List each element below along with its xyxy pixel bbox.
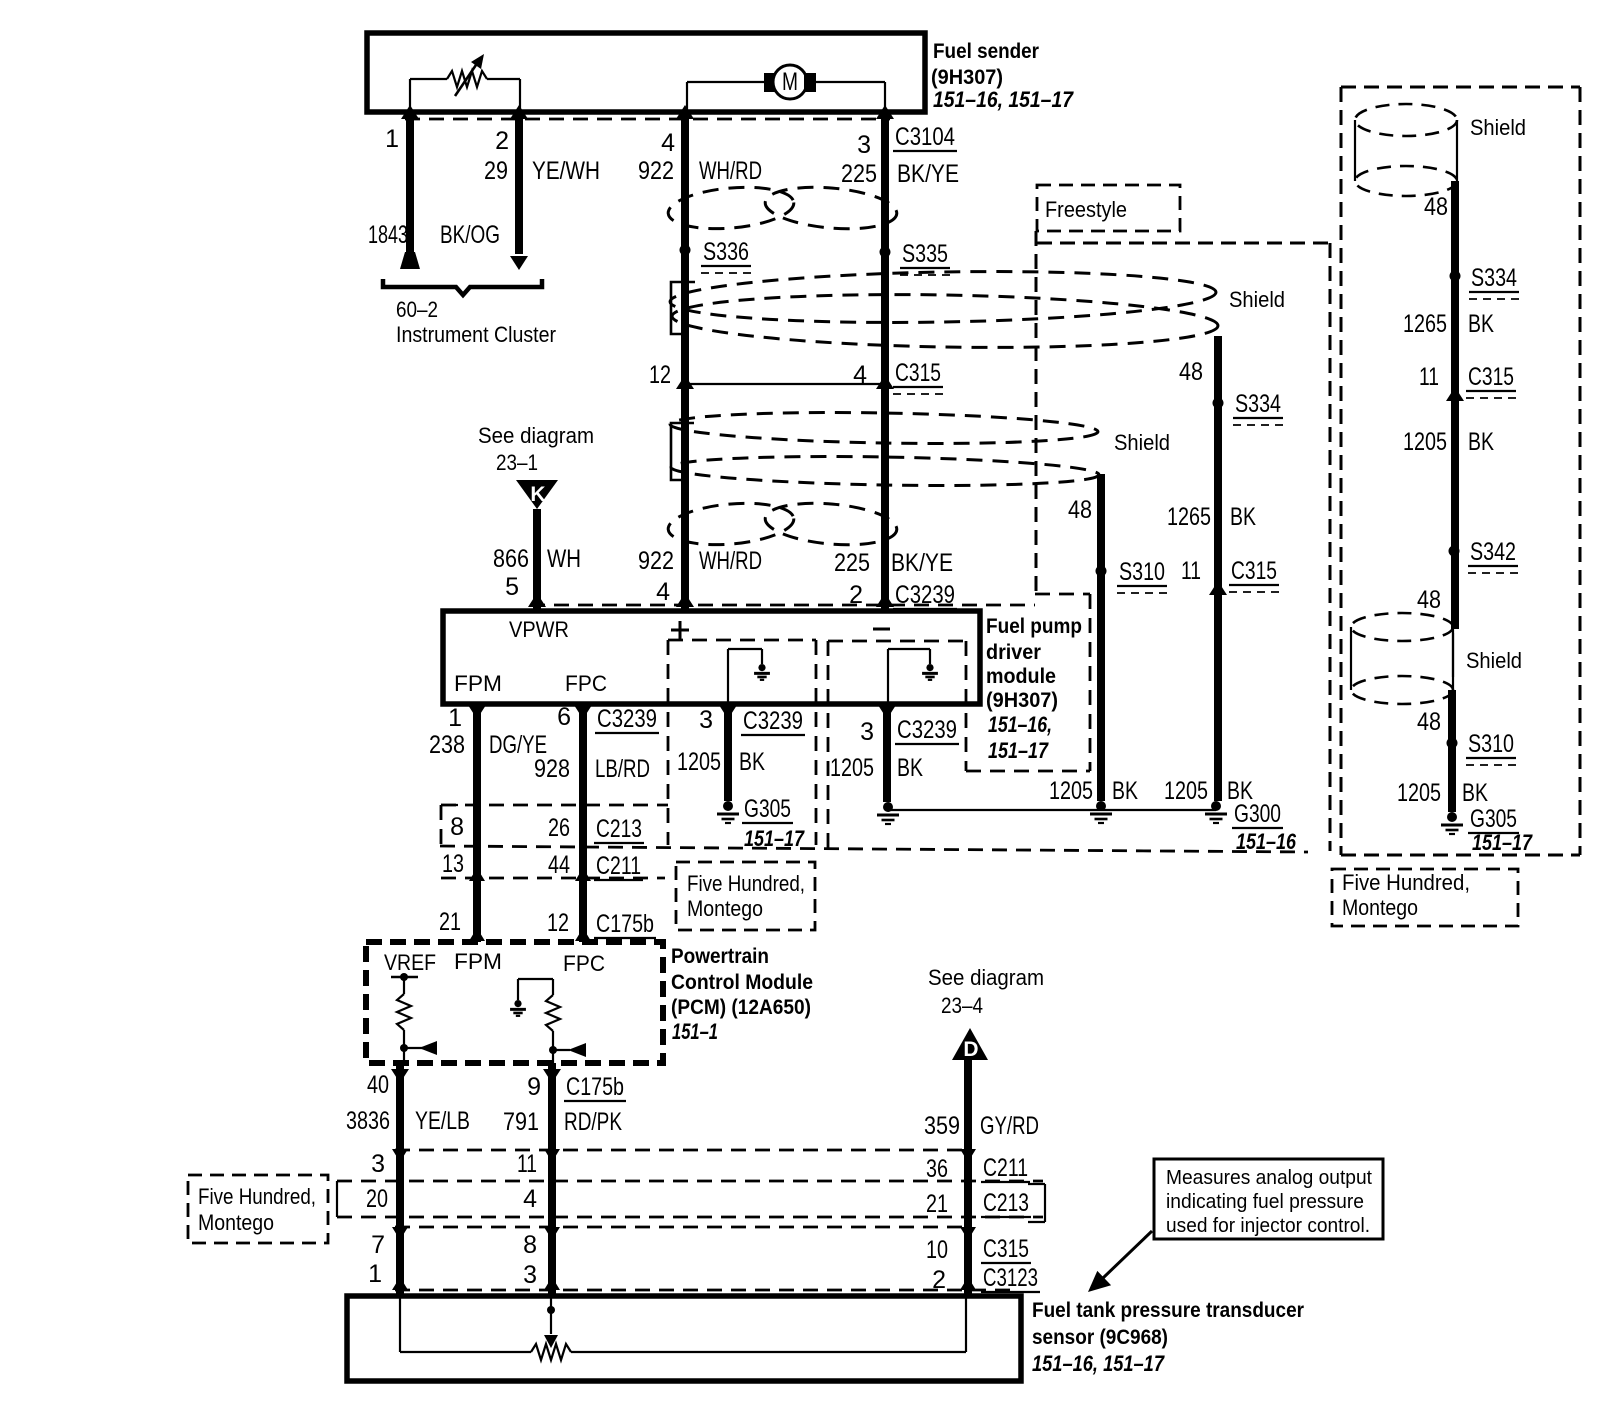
svg-text:WH: WH: [547, 545, 581, 573]
circuit 3836 YE/LB label: [346, 1107, 470, 1135]
svg-text:BK: BK: [1462, 779, 1488, 807]
svg-text:4: 4: [661, 129, 675, 157]
svg-text:1205: 1205: [830, 754, 874, 782]
svg-text:1: 1: [385, 125, 399, 153]
fuel tank pressure transducer sensor box: [347, 1296, 1021, 1381]
svg-text:C315: C315: [1468, 363, 1514, 391]
module description label: [986, 615, 1082, 763]
svg-text:Fuel tank pressure transducer: Fuel tank pressure transducer: [1032, 1299, 1304, 1322]
circuit 1205 BK label (+): [677, 748, 765, 776]
svg-text:BK: BK: [1112, 777, 1138, 805]
right variant region dashed box: [1341, 87, 1580, 855]
FPC internal resistor and ground circuit: [510, 979, 586, 1063]
svg-text:11: 11: [517, 1150, 537, 1178]
svg-text:S334: S334: [1471, 264, 1517, 292]
see diagram 23-1 note: [478, 423, 594, 475]
svg-text:9: 9: [527, 1073, 541, 1101]
svg-text:BK/YE: BK/YE: [891, 549, 953, 577]
svg-text:See diagram: See diagram: [478, 423, 594, 448]
svg-text:K: K: [530, 483, 545, 506]
svg-text:RD/PK: RD/PK: [564, 1108, 622, 1136]
svg-text:Five Hundred,: Five Hundred,: [198, 1184, 316, 1209]
ground G305 label (right): [1468, 805, 1533, 855]
svg-text:23–1: 23–1: [496, 450, 538, 475]
shield drain wire right (upper): [1451, 181, 1459, 629]
splice S334 (right): [1450, 264, 1520, 299]
svg-text:23–4: 23–4: [941, 993, 983, 1018]
svg-text:indicating fuel pressure: indicating fuel pressure: [1166, 1191, 1364, 1213]
svg-text:928: 928: [534, 755, 570, 783]
svg-text:VPWR: VPWR: [509, 617, 569, 642]
svg-text:4: 4: [656, 578, 670, 606]
pin 4 arrow into module: [676, 593, 694, 607]
svg-text:(PCM) (12A650): (PCM) (12A650): [671, 996, 811, 1019]
svg-text:module: module: [986, 665, 1056, 688]
wire 866 WH (K to module VPWR pin 5): [533, 509, 541, 611]
svg-text:29: 29: [484, 157, 508, 185]
svg-text:GY/RD: GY/RD: [980, 1112, 1039, 1140]
wire 3836 YE/LB (PCM pin 40 to sensor): [391, 1063, 409, 1296]
circuit 928 LB/RD label: [534, 755, 650, 783]
svg-text:Five Hundred,: Five Hundred,: [1342, 870, 1470, 895]
circuit 791 RD/PK label: [503, 1108, 622, 1136]
svg-text:S334: S334: [1235, 390, 1281, 418]
svg-text:C211: C211: [596, 852, 641, 880]
svg-text:C315: C315: [1231, 557, 1277, 585]
splice S334 (middle): [1213, 390, 1284, 425]
sensor description label: [1032, 1299, 1304, 1376]
svg-text:used for injector control.: used for injector control.: [1166, 1215, 1370, 1237]
variable resistor (fuel level sender) inside fuel sender: [410, 54, 520, 112]
pin 2 arrow into module: [876, 593, 894, 607]
module internal ground circuit (- side): [888, 649, 938, 704]
svg-text:1205: 1205: [677, 748, 721, 776]
svg-text:Montego: Montego: [687, 896, 763, 921]
svg-text:Montego: Montego: [198, 1210, 274, 1235]
svg-text:FPC: FPC: [563, 951, 605, 976]
svg-text:Montego: Montego: [1342, 895, 1418, 920]
svg-text:YE/WH: YE/WH: [532, 157, 600, 185]
splice S335: [880, 240, 951, 275]
connector C3123 line: [395, 1289, 1010, 1292]
svg-text:C315: C315: [895, 359, 941, 387]
C213 connector left bracket: [441, 805, 458, 848]
wire 791 RD/PK (PCM pin 9 to sensor): [543, 1063, 561, 1296]
pin 5 arrow into module: [528, 593, 546, 607]
powertrain control module box (dashed): [366, 942, 663, 1063]
connector C315 line (lower): [395, 1226, 970, 1229]
svg-text:922: 922: [638, 547, 674, 575]
svg-text:5: 5: [505, 573, 519, 601]
connector C3104 in-line connector line: [405, 118, 890, 121]
svg-text:S310: S310: [1119, 558, 1165, 586]
pin 4 arrow at C315: [876, 375, 894, 389]
svg-text:BK: BK: [1468, 310, 1494, 338]
Five Hundred Montego variant box (left): [188, 1175, 328, 1243]
dashed variant box around - ground circuit: [828, 641, 966, 848]
svg-text:S335: S335: [902, 240, 948, 268]
fuel sender box: [367, 33, 925, 112]
svg-text:48: 48: [1068, 496, 1092, 524]
circuit 29 YE/WH label: [484, 157, 600, 185]
svg-text:Powertrain: Powertrain: [671, 945, 769, 968]
ground G305 symbol (+): [717, 801, 739, 823]
pin 4 arrow into fuel sender: [676, 105, 694, 119]
circuit 1205 BK label (-): [830, 754, 923, 782]
svg-text:C3239: C3239: [597, 705, 657, 733]
svg-text:C175b: C175b: [566, 1073, 624, 1101]
shield loop middle (around 922/225 pair): [670, 409, 1099, 488]
svg-text:3836: 3836: [346, 1107, 390, 1135]
connector line above C213 labels: [441, 804, 668, 807]
pin 2 arrow into fuel sender: [510, 105, 528, 119]
svg-text:8: 8: [523, 1231, 537, 1259]
circuit 1265 BK label (right): [1403, 310, 1494, 338]
twisted pair symbol lower: [666, 498, 898, 549]
svg-text:151–17: 151–17: [988, 738, 1049, 763]
svg-text:BK/YE: BK/YE: [897, 160, 959, 188]
dashed variant box around + ground circuit: [668, 640, 816, 845]
circuit 1205 BK label (G300 drain): [1164, 777, 1253, 805]
module internal ground circuit (+ side): [728, 649, 770, 704]
svg-text:151–16, 151–17: 151–16, 151–17: [1032, 1351, 1165, 1376]
instrument cluster label 60-2: [396, 297, 556, 347]
svg-text:866: 866: [493, 545, 529, 573]
connector C3239 in-line connector line at module top: [530, 604, 1035, 607]
svg-text:WH/RD: WH/RD: [699, 157, 762, 185]
svg-text:12: 12: [547, 909, 569, 937]
svg-text:FPM: FPM: [454, 671, 502, 696]
svg-text:40: 40: [367, 1071, 389, 1099]
splice S310 (right): [1447, 730, 1517, 765]
Five Hundred Montego variant box (middle): [676, 862, 815, 930]
svg-text:C3123: C3123: [983, 1264, 1038, 1292]
svg-text:3: 3: [857, 131, 871, 159]
svg-text:1: 1: [448, 704, 462, 732]
sensor internal circuit with resistor: [400, 1296, 966, 1360]
circuit 1205 BK label (right lower): [1397, 779, 1488, 807]
VREF internal resistor circuit: [391, 973, 437, 1063]
shield cylinder lower (right): [1351, 613, 1453, 704]
ground G300 symbol: [1205, 801, 1227, 823]
wire 1843 BK/OG to instrument cluster: [400, 118, 420, 269]
circuit 225 BK/YE label (lower): [834, 549, 953, 577]
svg-text:26: 26: [548, 814, 570, 842]
minus terminal label: [873, 628, 890, 631]
circuit 1205 BK label (middle drain): [1049, 777, 1138, 805]
svg-text:3: 3: [371, 1150, 385, 1178]
svg-text:sensor (9C968): sensor (9C968): [1032, 1326, 1168, 1349]
svg-text:36: 36: [926, 1155, 948, 1183]
circuit 922 WH/RD label (lower): [638, 547, 762, 575]
instrument cluster brace: [383, 279, 542, 295]
measures analog output note box: [1154, 1159, 1383, 1239]
plus terminal label: [671, 621, 689, 639]
svg-text:151–16: 151–16: [1236, 829, 1297, 854]
pin 12 arrow at C315: [676, 375, 694, 389]
pin 3 arrow into fuel sender: [876, 105, 894, 119]
svg-text:S310: S310: [1468, 730, 1514, 758]
svg-text:3: 3: [523, 1261, 537, 1289]
wire 225 BK/YE (fuel sender pin 3 to fuel pump driver module): [881, 118, 889, 611]
svg-text:BK: BK: [897, 754, 923, 782]
svg-text:225: 225: [841, 160, 877, 188]
svg-text:13: 13: [442, 850, 464, 878]
svg-text:791: 791: [503, 1108, 539, 1136]
svg-text:1: 1: [368, 1260, 382, 1288]
svg-text:Shield: Shield: [1114, 430, 1170, 455]
ground symbol (middle drain): [1090, 801, 1112, 823]
Freestyle region left boundary: [1035, 231, 1038, 592]
svg-text:1205: 1205: [1403, 428, 1447, 456]
svg-text:21: 21: [926, 1190, 948, 1218]
wire 1205 BK from module - to ground: [878, 704, 896, 802]
svg-text:BK: BK: [1230, 503, 1256, 531]
arrow at C315 (middle drain): [1209, 581, 1227, 595]
circuit 866 WH label: [493, 545, 581, 573]
svg-text:Instrument Cluster: Instrument Cluster: [396, 322, 556, 347]
svg-text:48: 48: [1179, 358, 1203, 386]
svg-text:C3239: C3239: [743, 707, 803, 735]
svg-text:11: 11: [1419, 363, 1439, 391]
PCM description label: [671, 945, 813, 1044]
svg-text:4: 4: [523, 1185, 537, 1213]
svg-text:359: 359: [924, 1112, 960, 1140]
wire 922 WH/RD (fuel sender pin 4 to fuel pump driver module): [681, 118, 689, 611]
circuit 1205 BK label (right upper): [1403, 428, 1494, 456]
svg-text:LB/RD: LB/RD: [595, 755, 650, 783]
ground G305 label: [742, 795, 805, 851]
svg-text:Shield: Shield: [1466, 648, 1522, 673]
Freestyle region top boundary: [1037, 242, 1330, 245]
svg-text:4: 4: [853, 361, 867, 389]
splice S310 (middle): [1096, 558, 1168, 593]
svg-text:151–1: 151–1: [672, 1019, 718, 1044]
dashed corner by module text box: [1035, 594, 1090, 771]
fuel sender component label: [931, 40, 1075, 112]
off-page connector K (triangle): [516, 480, 558, 509]
circuit 1265 BK label (middle): [1167, 503, 1256, 531]
shield loop upper (around 922/225 pair): [670, 267, 1219, 352]
svg-text:C211: C211: [983, 1154, 1028, 1182]
svg-text:C315: C315: [983, 1235, 1029, 1263]
motor M (fuel pump) inside fuel sender: [687, 65, 885, 112]
svg-text:151–16,: 151–16,: [988, 712, 1052, 737]
wire 928 LB/RD (module FPC to PCM): [574, 704, 592, 942]
svg-text:151–17: 151–17: [744, 826, 805, 851]
svg-text:Fuel pump: Fuel pump: [986, 615, 1082, 638]
wire 359 GY/RD (sensor to PCM via D): [960, 1060, 976, 1296]
svg-text:1205: 1205: [1164, 777, 1208, 805]
svg-text:60–2: 60–2: [396, 297, 438, 322]
svg-text:FPC: FPC: [565, 671, 607, 696]
Freestyle region right boundary: [1329, 243, 1332, 851]
connector C213 region lines (lower): [337, 1181, 1043, 1217]
svg-text:Fuel sender: Fuel sender: [933, 40, 1039, 63]
svg-text:BK: BK: [739, 748, 765, 776]
svg-text:11: 11: [1181, 557, 1201, 585]
Five Hundred Montego variant box (right): [1332, 869, 1518, 926]
connector C211 in-line line: [441, 877, 665, 880]
svg-text:C3104: C3104: [895, 123, 955, 151]
ground G305 symbol (right): [1441, 812, 1463, 834]
svg-text:48: 48: [1417, 708, 1441, 736]
svg-text:YE/LB: YE/LB: [415, 1107, 470, 1135]
twisted pair symbol upper: [666, 182, 898, 233]
pin 1 arrow into fuel sender: [401, 105, 419, 119]
circuit 238 DG/YE label: [429, 731, 547, 759]
svg-text:1265: 1265: [1403, 310, 1447, 338]
connector C211 line (lower): [395, 1149, 970, 1152]
svg-text:10: 10: [926, 1236, 948, 1264]
svg-text:See diagram: See diagram: [928, 965, 1044, 990]
wire 238 DG/YE (module FPM to PCM): [468, 704, 486, 942]
svg-text:238: 238: [429, 731, 465, 759]
circuit 359 GY/RD label: [924, 1112, 1039, 1140]
svg-text:3: 3: [699, 706, 713, 734]
dashed box around module description text: [966, 770, 1090, 773]
svg-text:922: 922: [638, 157, 674, 185]
svg-text:151–16, 151–17: 151–16, 151–17: [933, 87, 1075, 112]
note arrow to sensor box: [1088, 1231, 1152, 1292]
svg-text:6: 6: [557, 703, 571, 731]
long dashed variant boundary line (bottom of Freestyle region): [440, 846, 1308, 852]
ground bus line to G300: [888, 809, 1216, 811]
arrow at C315 (right): [1446, 387, 1464, 401]
connector C213 right bracket: [1028, 1184, 1045, 1222]
svg-text:G300: G300: [1234, 800, 1281, 828]
ground G300 label: [1232, 800, 1297, 854]
svg-text:C3239: C3239: [897, 716, 957, 744]
svg-text:S342: S342: [1470, 538, 1516, 566]
svg-text:C175b: C175b: [596, 910, 654, 938]
svg-text:(9H307): (9H307): [986, 689, 1058, 712]
svg-text:48: 48: [1424, 193, 1448, 221]
svg-text:12: 12: [649, 361, 671, 389]
Freestyle label box: [1037, 185, 1180, 231]
svg-text:WH/RD: WH/RD: [699, 547, 762, 575]
svg-text:Freestyle: Freestyle: [1045, 197, 1127, 222]
ground symbol (- side): [877, 802, 899, 824]
svg-text:Measures analog output: Measures analog output: [1166, 1167, 1372, 1189]
svg-text:1205: 1205: [1397, 779, 1441, 807]
svg-text:1265: 1265: [1167, 503, 1211, 531]
svg-text:7: 7: [371, 1231, 385, 1259]
svg-text:Shield: Shield: [1470, 115, 1526, 140]
shield drain wire right (lower): [1448, 690, 1456, 812]
svg-text:FPM: FPM: [454, 949, 502, 974]
svg-text:1843: 1843: [368, 221, 408, 249]
shield cylinder upper (right): [1355, 104, 1457, 196]
svg-text:8: 8: [450, 813, 464, 841]
svg-text:Five Hundred,: Five Hundred,: [687, 871, 805, 896]
svg-text:Control Module: Control Module: [671, 971, 813, 994]
svg-text:VREF: VREF: [384, 950, 436, 975]
shield drain wire 48 (middle shield) to S310: [1097, 474, 1105, 801]
svg-text:Shield: Shield: [1229, 287, 1285, 312]
circuit 1843 BK/OG label: [368, 221, 500, 249]
fuel pump driver module box: [443, 611, 980, 704]
circuit 225 BK/YE label (top): [841, 160, 959, 188]
svg-text:G305: G305: [744, 795, 791, 823]
wire 29 YE/WH to instrument cluster: [510, 118, 528, 270]
svg-text:225: 225: [834, 549, 870, 577]
wire 1205 BK from module + to ground G305: [719, 704, 737, 801]
see diagram 23-4 note: [928, 965, 1044, 1018]
svg-text:BK/OG: BK/OG: [440, 221, 500, 249]
svg-text:44: 44: [548, 851, 570, 879]
svg-text:1205: 1205: [1049, 777, 1093, 805]
svg-text:2: 2: [495, 127, 509, 155]
svg-text:3: 3: [860, 718, 874, 746]
splice S336: [680, 238, 752, 273]
svg-text:(9H307): (9H307): [931, 66, 1003, 89]
svg-text:C213: C213: [596, 815, 642, 843]
svg-text:48: 48: [1417, 586, 1441, 614]
svg-text:G305: G305: [1470, 805, 1517, 833]
connector C315 in-line line (pins 12/4): [685, 383, 885, 385]
svg-text:BK: BK: [1468, 428, 1494, 456]
svg-text:151–17: 151–17: [1472, 830, 1533, 855]
circuit 922 WH/RD label (top): [638, 157, 762, 185]
splice S342 (right): [1449, 538, 1519, 573]
shield drain wire 48 (upper shield) to G300: [1214, 336, 1222, 801]
svg-text:driver: driver: [986, 641, 1041, 664]
svg-text:C213: C213: [983, 1189, 1029, 1217]
svg-text:M: M: [782, 68, 798, 96]
svg-text:21: 21: [439, 908, 461, 936]
off-page connector D (triangle): [952, 1028, 988, 1061]
svg-text:S336: S336: [703, 238, 749, 266]
svg-text:20: 20: [366, 1185, 388, 1213]
svg-text:D: D: [963, 1038, 978, 1061]
